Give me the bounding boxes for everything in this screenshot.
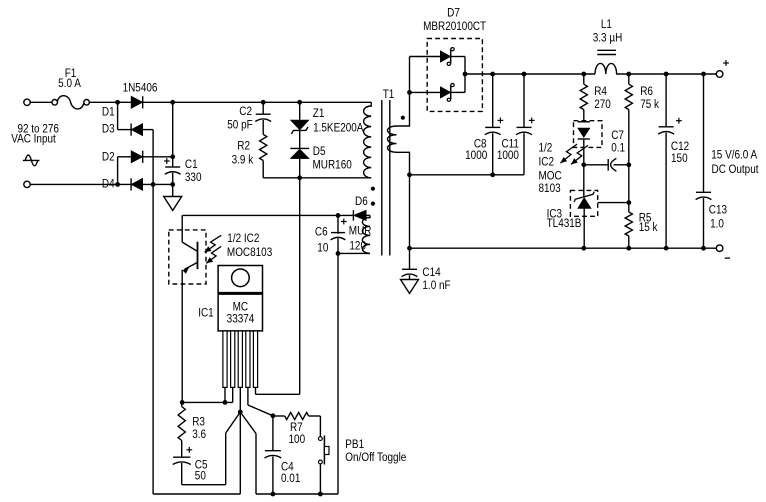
svg-text:T1: T1 bbox=[383, 88, 395, 101]
label D4 bbox=[102, 178, 115, 191]
IC U1 pins bbox=[223, 331, 258, 388]
capacitor C11 1000 bbox=[516, 74, 535, 175]
node Z1 branch junction bbox=[297, 100, 302, 105]
svg-text:R6: R6 bbox=[640, 85, 653, 98]
svg-text:MUR: MUR bbox=[349, 225, 372, 238]
svg-text:1.0 nF: 1.0 nF bbox=[422, 279, 450, 292]
svg-text:R4: R4 bbox=[594, 85, 607, 98]
wire bbox=[409, 57, 411, 93]
wire bbox=[30, 101, 52, 103]
wire bbox=[172, 102, 174, 167]
svg-text:1N5406: 1N5406 bbox=[123, 82, 158, 95]
svg-text:DC Output: DC Output bbox=[711, 163, 758, 176]
svg-text:D7: D7 bbox=[447, 7, 460, 20]
node C6 top junction bbox=[336, 213, 341, 218]
transformer T1 auxiliary winding bbox=[362, 215, 370, 253]
IC U1 MC33374 package bbox=[218, 266, 262, 331]
svg-text:120: 120 bbox=[349, 240, 366, 253]
diode D4 bbox=[30, 178, 173, 190]
svg-text:0.1: 0.1 bbox=[611, 142, 625, 155]
wire bbox=[583, 165, 585, 197]
svg-text:50: 50 bbox=[195, 470, 206, 483]
svg-text:50 pF: 50 pF bbox=[227, 119, 253, 132]
node TL431 anode junction bbox=[581, 246, 586, 251]
label MUR160 bbox=[313, 159, 352, 172]
transformer T1 core bbox=[382, 100, 390, 256]
capacitor C8 1000 bbox=[485, 74, 504, 175]
svg-text:PB1: PB1 bbox=[345, 438, 364, 451]
label 120 bbox=[349, 240, 366, 253]
wire bbox=[337, 253, 339, 494]
label 330 bbox=[185, 171, 202, 184]
svg-text:TL431B: TL431B bbox=[547, 217, 582, 230]
node TL431 ref junction bbox=[626, 200, 631, 205]
diode D7b bbox=[410, 83, 466, 101]
node C1 ground junction bbox=[170, 182, 175, 187]
svg-text:270: 270 bbox=[594, 98, 611, 111]
label On/Off Toggle bbox=[345, 451, 406, 464]
label 3.3 uH bbox=[593, 32, 623, 45]
label MOC8103 bbox=[227, 246, 272, 259]
resistor R4 270 bbox=[580, 74, 587, 122]
wire bbox=[465, 73, 716, 75]
resistor R5 15 k bbox=[625, 212, 632, 248]
node R6 top junction bbox=[626, 72, 631, 77]
label 0.01 bbox=[281, 472, 300, 485]
wire pin 4 bbox=[248, 387, 273, 415]
wire fan right bbox=[240, 412, 338, 494]
label C5 bbox=[195, 459, 208, 472]
label 100 bbox=[289, 433, 306, 446]
label IC2 bbox=[539, 156, 554, 169]
wire bbox=[182, 214, 353, 216]
label D7 bbox=[447, 7, 460, 20]
node C7 R6 junction bbox=[626, 162, 631, 167]
label 1.5KE200A bbox=[313, 122, 364, 135]
node C11 top junction bbox=[522, 72, 527, 77]
label C11 bbox=[501, 138, 519, 151]
wire bbox=[117, 157, 119, 185]
transformer T1 secondary winding bbox=[388, 92, 410, 174]
svg-text:100: 100 bbox=[289, 433, 306, 446]
label C12 bbox=[671, 140, 689, 153]
diode D2 bbox=[118, 151, 173, 163]
ground bbox=[401, 280, 419, 294]
label 1N5406 bbox=[123, 82, 158, 95]
svg-text:MBR20100CT: MBR20100CT bbox=[423, 20, 486, 33]
node pin 4 junction bbox=[271, 413, 276, 418]
svg-text:1/2 IC2: 1/2 IC2 bbox=[227, 232, 259, 245]
capacitor C1 330 bbox=[164, 158, 181, 184]
label C6 bbox=[315, 226, 328, 239]
label R2 bbox=[237, 140, 250, 153]
label 150 bbox=[671, 152, 688, 165]
resistor R7 100 bbox=[273, 412, 321, 419]
label 75 k bbox=[640, 98, 659, 111]
AC source symbol bbox=[23, 155, 40, 166]
node C13 bottom junction bbox=[701, 246, 706, 251]
node C13 top junction bbox=[701, 72, 706, 77]
label 1000 bbox=[465, 149, 487, 162]
label F1 bbox=[65, 67, 77, 80]
wire bbox=[173, 101, 372, 103]
node bridge minus junction bbox=[151, 182, 156, 187]
svg-text:MUR160: MUR160 bbox=[313, 159, 352, 172]
node DC output minus terminal bbox=[716, 245, 730, 258]
label 1000 bbox=[497, 149, 519, 162]
svg-text:VAC Input: VAC Input bbox=[11, 133, 56, 146]
diode D7a bbox=[410, 48, 466, 66]
label R5 bbox=[639, 212, 652, 225]
label 1.0 bbox=[710, 218, 724, 231]
capacitor C7 0.1 bbox=[584, 158, 629, 171]
label 0.1 bbox=[611, 142, 625, 155]
phasing dot auxiliary bbox=[371, 202, 375, 206]
svg-text:D3: D3 bbox=[102, 123, 115, 136]
photo-transistor 1/2 IC2 bbox=[182, 215, 197, 402]
wire pin 3 bbox=[239, 387, 241, 412]
label 10 bbox=[317, 242, 328, 255]
node C6 bottom junction bbox=[336, 251, 341, 256]
capacitor C13 1.0 bbox=[696, 74, 712, 248]
node ground fan junction bbox=[238, 410, 243, 415]
diode D3 bbox=[118, 124, 154, 136]
wire pin 5 bbox=[255, 387, 257, 394]
node LED cathode junction bbox=[581, 162, 586, 167]
wire bbox=[410, 174, 525, 176]
label IC3 bbox=[547, 208, 562, 221]
node bridge AC2 junction bbox=[115, 182, 120, 187]
wire fan middle bbox=[153, 412, 240, 494]
label R3 bbox=[192, 416, 205, 429]
capacitor C2 50 pF bbox=[255, 102, 271, 121]
label VAC Input bbox=[11, 133, 56, 146]
label 8103 bbox=[539, 182, 561, 195]
svg-text:L1: L1 bbox=[601, 18, 612, 31]
label R7 bbox=[290, 421, 303, 434]
label PB1 bbox=[345, 438, 364, 451]
phasing dot primary bbox=[371, 187, 375, 191]
node D7 anode junction bbox=[407, 90, 412, 95]
diode D6 MUR120 bbox=[353, 210, 370, 220]
svg-text:C14: C14 bbox=[422, 266, 440, 279]
svg-text:3.6: 3.6 bbox=[192, 428, 206, 441]
switch PB1 On/Off Toggle bbox=[319, 416, 330, 494]
svg-text:5.0 A: 5.0 A bbox=[58, 77, 81, 90]
node AC input terminal (neutral) bbox=[24, 181, 30, 187]
node C8 bottom junction bbox=[490, 172, 495, 177]
inductor L1 3.3 uH bbox=[595, 50, 617, 74]
svg-text:33374: 33374 bbox=[227, 313, 255, 326]
diode D7 MBR20100CT (dashed package) bbox=[427, 39, 482, 112]
LED light arrows bbox=[560, 144, 588, 164]
capacitor C4 0.01 bbox=[265, 416, 282, 494]
svg-text:MOC8103: MOC8103 bbox=[227, 246, 272, 259]
svg-text:IC1: IC1 bbox=[198, 307, 213, 320]
resistor R6 75 k bbox=[625, 74, 632, 212]
label C1 bbox=[185, 158, 198, 171]
opto-coupler 1/2 IC2 MOC8103 (dashed box) bbox=[169, 230, 206, 284]
svg-text:150: 150 bbox=[671, 152, 688, 165]
svg-text:1/2: 1/2 bbox=[539, 142, 553, 155]
zener Z1 1.5KE200A bbox=[291, 102, 309, 148]
label 15 V/6.0 A bbox=[711, 149, 758, 162]
node C12 bottom junction bbox=[664, 246, 669, 251]
svg-text:C7: C7 bbox=[611, 129, 624, 142]
svg-text:3.3 µH: 3.3 µH bbox=[593, 32, 623, 45]
label 1.0 nF bbox=[422, 279, 450, 292]
svg-text:75 k: 75 k bbox=[640, 98, 659, 111]
svg-text:1000: 1000 bbox=[497, 149, 519, 162]
svg-text:330: 330 bbox=[185, 171, 202, 184]
wire bbox=[152, 130, 154, 185]
wire bbox=[117, 102, 119, 129]
svg-text:C6: C6 bbox=[315, 226, 328, 239]
label TL431B bbox=[547, 217, 582, 230]
node bridge plus junction bbox=[170, 100, 175, 105]
label MOC bbox=[539, 170, 562, 183]
node PB1 bottom junction bbox=[318, 492, 323, 497]
svg-text:D2: D2 bbox=[102, 151, 115, 164]
label C8 bbox=[474, 138, 487, 151]
label 50 bbox=[195, 470, 206, 483]
shunt regulator IC3 TL431B bbox=[574, 192, 594, 249]
label R6 bbox=[640, 85, 653, 98]
label MBR20100CT bbox=[423, 20, 486, 33]
node C8 top junction bbox=[490, 72, 495, 77]
label MUR bbox=[349, 225, 372, 238]
svg-text:D5: D5 bbox=[313, 145, 326, 158]
label C14 bbox=[422, 266, 440, 279]
wire bbox=[89, 101, 117, 103]
wire bbox=[409, 175, 411, 269]
node output minus junction bbox=[407, 246, 412, 251]
label MC bbox=[233, 301, 249, 314]
capacitor C6 10 bbox=[331, 215, 347, 253]
diode D5 MUR160 bbox=[290, 148, 309, 177]
label 3.9 k bbox=[232, 154, 254, 167]
label C2 bbox=[239, 105, 252, 118]
label D1 bbox=[102, 106, 115, 119]
svg-text:3.9 k: 3.9 k bbox=[232, 154, 254, 167]
svg-text:R3: R3 bbox=[192, 416, 205, 429]
node R5 bottom junction bbox=[626, 246, 631, 251]
ground bbox=[164, 197, 182, 211]
node pin 1 junction bbox=[223, 400, 228, 405]
label R4 bbox=[594, 85, 607, 98]
label C13 bbox=[709, 204, 727, 217]
wire bbox=[338, 252, 370, 254]
svg-text:On/Off Toggle: On/Off Toggle bbox=[345, 451, 406, 464]
label Z1 bbox=[313, 107, 325, 120]
resistor R2 3.9 k bbox=[260, 120, 267, 178]
node C2 branch junction bbox=[261, 100, 266, 105]
capacitor C5 50 bbox=[173, 447, 193, 485]
svg-text:D1: D1 bbox=[102, 106, 115, 119]
wire fan left bbox=[182, 412, 241, 485]
svg-text:D4: D4 bbox=[102, 178, 115, 191]
svg-text:1.0: 1.0 bbox=[710, 218, 724, 231]
svg-text:1.5KE200A: 1.5KE200A bbox=[313, 122, 364, 135]
label C7 bbox=[611, 129, 624, 142]
node AC input terminal (line) bbox=[24, 99, 30, 105]
capacitor C12 150 bbox=[658, 74, 682, 248]
label D5 bbox=[313, 145, 326, 158]
wire bbox=[410, 247, 717, 249]
wire bbox=[182, 401, 233, 403]
node DC output plus terminal bbox=[716, 60, 729, 77]
svg-text:0.01: 0.01 bbox=[281, 472, 300, 485]
node emitter R3 junction bbox=[180, 400, 185, 405]
wire bbox=[263, 177, 371, 179]
phasing dot secondary bbox=[401, 116, 405, 120]
label L1 bbox=[601, 18, 612, 31]
wire pin 2 bbox=[232, 387, 234, 402]
node D2 cathode junction bbox=[170, 154, 175, 159]
wire pin 1 bbox=[224, 387, 226, 402]
transformer T1 primary winding bbox=[364, 102, 372, 177]
node D7 cathode junction bbox=[463, 72, 468, 77]
fuse F1 bbox=[52, 96, 89, 109]
photo-transistor light arrows bbox=[205, 235, 222, 263]
label D3 bbox=[102, 123, 115, 136]
label D6 bbox=[355, 195, 368, 208]
wire bbox=[464, 57, 466, 93]
svg-text:IC2: IC2 bbox=[539, 156, 554, 169]
label 15 k bbox=[639, 221, 658, 234]
svg-text:10: 10 bbox=[317, 242, 328, 255]
svg-text:15 k: 15 k bbox=[639, 221, 658, 234]
label C4 bbox=[281, 461, 294, 474]
label 92 to 276 bbox=[17, 123, 59, 136]
shunt regulator IC3 TL431B (dashed box) bbox=[570, 190, 597, 216]
opto-coupler IC2 LED (dashed box) bbox=[574, 121, 603, 148]
svg-text:1000: 1000 bbox=[465, 149, 487, 162]
svg-text:C13: C13 bbox=[709, 204, 727, 217]
svg-text:Z1: Z1 bbox=[313, 107, 325, 120]
label T1 bbox=[383, 88, 395, 101]
svg-text:8103: 8103 bbox=[539, 182, 561, 195]
svg-text:D6: D6 bbox=[355, 195, 368, 208]
label D2 bbox=[102, 151, 115, 164]
svg-text:C1: C1 bbox=[185, 158, 198, 171]
label IC1 bbox=[198, 307, 213, 320]
label 50 pF bbox=[227, 119, 253, 132]
label 1/2 IC2 bbox=[227, 232, 259, 245]
capacitor C14 1.0 nF bbox=[402, 269, 418, 279]
svg-text:15 V/6.0 A: 15 V/6.0 A bbox=[711, 149, 758, 162]
svg-text:R2: R2 bbox=[237, 140, 250, 153]
label 3.6 bbox=[192, 428, 206, 441]
wire bbox=[256, 178, 300, 394]
node bridge AC1 junction bbox=[115, 100, 120, 105]
node secondary return junction bbox=[407, 172, 412, 177]
label 5.0 A bbox=[58, 77, 81, 90]
label 1/2 bbox=[539, 142, 553, 155]
wire bbox=[152, 184, 154, 494]
svg-text:MOC: MOC bbox=[539, 170, 562, 183]
LED 1/2 IC2 bbox=[578, 122, 590, 165]
label DC Output bbox=[711, 163, 758, 176]
node C12 top junction bbox=[664, 72, 669, 77]
resistor R3 3.6 bbox=[178, 402, 185, 457]
label 33374 bbox=[227, 313, 255, 326]
diode D1 1N5406 bbox=[118, 96, 173, 108]
node R4 top junction bbox=[581, 72, 586, 77]
wire TL431 ref bbox=[598, 202, 629, 204]
svg-text:C2: C2 bbox=[239, 105, 252, 118]
node C4 bottom junction bbox=[271, 492, 276, 497]
label 270 bbox=[594, 98, 611, 111]
node D5 snubber junction bbox=[297, 175, 302, 180]
wire bbox=[172, 184, 174, 196]
